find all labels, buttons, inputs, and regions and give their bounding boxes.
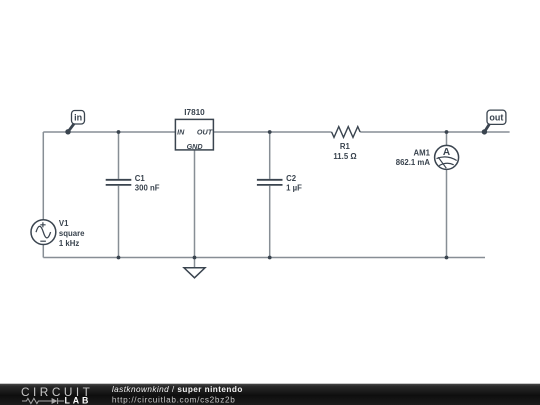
svg-text:http://circuitlab.com/cs2bz2b: http://circuitlab.com/cs2bz2b bbox=[112, 395, 236, 404]
svg-text:C1: C1 bbox=[135, 174, 146, 183]
svg-text:in: in bbox=[74, 113, 82, 123]
svg-text:11.5 Ω: 11.5 Ω bbox=[333, 152, 356, 161]
svg-text:A: A bbox=[443, 147, 450, 158]
svg-text:C2: C2 bbox=[286, 174, 297, 183]
svg-text:862.1 mA: 862.1 mA bbox=[396, 158, 431, 167]
svg-text:GND: GND bbox=[187, 142, 203, 151]
svg-text:OUT: OUT bbox=[197, 128, 213, 137]
svg-text:LAB: LAB bbox=[65, 396, 92, 405]
svg-text:square: square bbox=[59, 229, 85, 238]
svg-text:R1: R1 bbox=[340, 142, 351, 151]
svg-text:V1: V1 bbox=[59, 219, 69, 228]
svg-text:AM1: AM1 bbox=[414, 149, 431, 158]
svg-text:lastknownkind / super nintendo: lastknownkind / super nintendo bbox=[112, 385, 243, 394]
svg-text:out: out bbox=[489, 113, 503, 123]
svg-text:1 µF: 1 µF bbox=[286, 183, 302, 192]
svg-text:300 nF: 300 nF bbox=[135, 183, 160, 192]
svg-text:1 kHz: 1 kHz bbox=[59, 239, 79, 248]
svg-text:I7810: I7810 bbox=[184, 108, 205, 117]
svg-text:IN: IN bbox=[177, 128, 185, 137]
